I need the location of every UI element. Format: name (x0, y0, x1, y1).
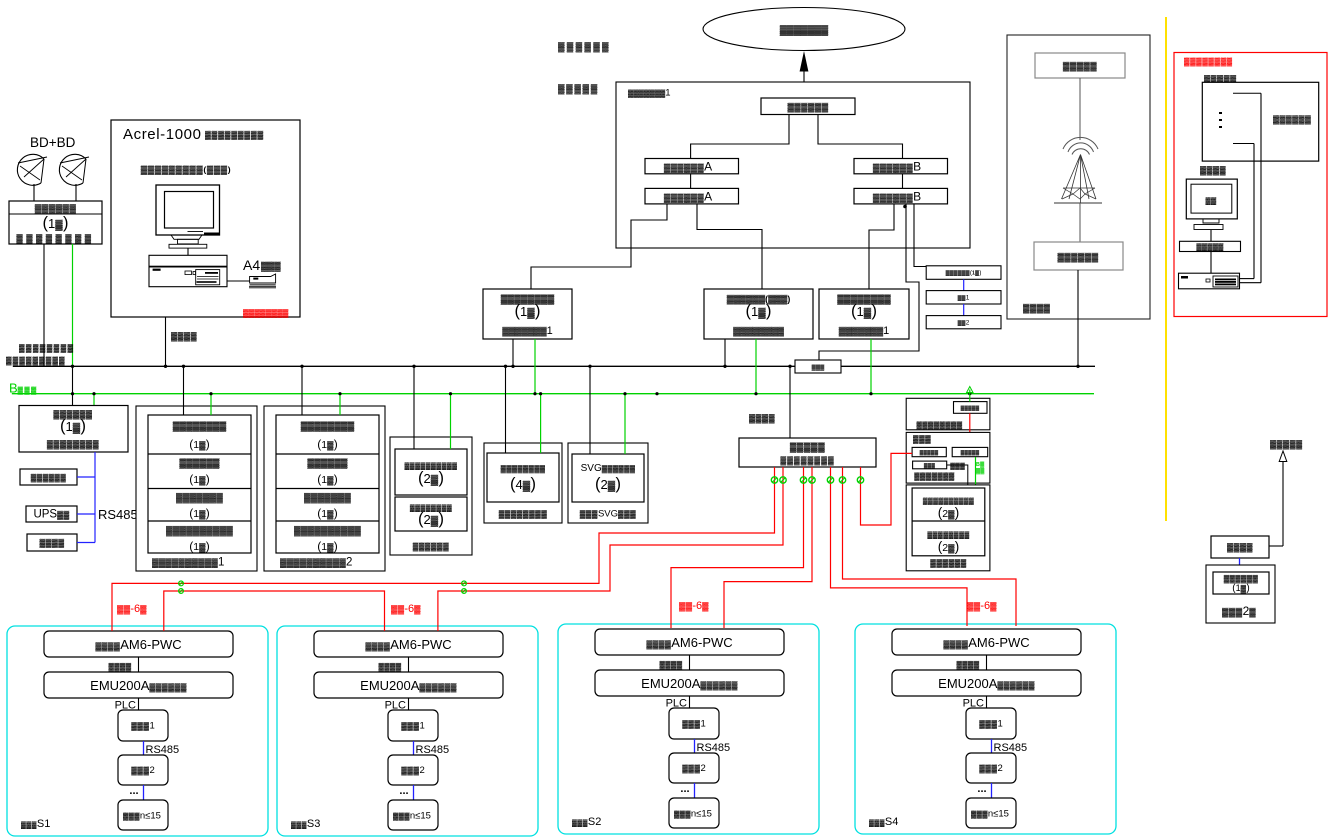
station S3 inverter 2 box (388, 755, 438, 785)
wire keyboard to PC (1210, 252, 1212, 274)
svg-text:(1▓): (1▓) (317, 506, 337, 520)
wire LAN bus to ring switch (789, 366, 791, 438)
booster station S3 cyan box (277, 626, 538, 836)
svg-text:▓▓▓2: ▓▓▓2 (682, 763, 706, 774)
svg-text:▓▓▓▓▓▓A: ▓▓▓▓▓▓A (664, 160, 712, 174)
reserved screen big box (1007, 35, 1150, 319)
svg-text:(1▓): (1▓) (1232, 583, 1249, 594)
clock sync device box (9, 201, 102, 244)
station S3 EMU200A box (314, 672, 503, 698)
wire clock box B-code green (72, 244, 74, 366)
wire monitor to keyboard (1210, 230, 1212, 241)
safety automation screen 1 stack box (136, 406, 257, 571)
safety automation screen 2 stack box (264, 406, 385, 571)
wire B-code timing green bus (12, 393, 1094, 395)
ellipse Shanghai dispatch platform (703, 8, 905, 51)
svg-text:▓▓▓▓: ▓▓▓▓ (171, 331, 198, 342)
svg-text:▓▓▓▓▓▓▓▓▓: ▓▓▓▓▓▓▓▓▓ (6, 356, 66, 366)
station S4 wire RS485 blue 2 (991, 783, 993, 798)
wire antenna1 to clock box (33, 184, 35, 201)
wire modem1 to modem2 blue (963, 279, 965, 290)
station S4 inverter n box (966, 798, 1016, 828)
svg-text:▓▓▓▓▓▓▓▓: ▓▓▓▓▓▓▓▓ (301, 421, 355, 432)
antenna dish 1 (17, 154, 44, 185)
svg-text:▓▓▓▓▓▓▓▓▓▓: ▓▓▓▓▓▓▓▓▓▓ (923, 497, 974, 505)
svg-text:▓▓▓▓▓▓▓: ▓▓▓▓▓▓▓ (176, 493, 223, 504)
keyboard and mouse box (1180, 241, 1241, 251)
svg-text:...: ... (680, 783, 689, 795)
station S2 EMU200A box (595, 670, 784, 696)
antenna dish 2 (59, 154, 86, 185)
wire netsec1 to LAN bus (512, 339, 514, 366)
svg-text:▓▓2: ▓▓2 (958, 319, 970, 326)
svg-text:▓▓▓▓: ▓▓▓▓ (108, 662, 131, 672)
wire LAN bus to incoming cabinet (505, 366, 507, 453)
svg-text:▓▓▓▓: ▓▓▓▓ (956, 660, 979, 670)
station S4 wire EMU to inverter1 (986, 696, 988, 708)
wire switch B to net-security device 2 (869, 204, 894, 289)
svg-text:▓▓▓▓▓▓▓: ▓▓▓▓▓▓▓ (914, 472, 955, 482)
svg-text:...: ... (399, 785, 408, 797)
svg-text:A4: A4 (243, 257, 260, 273)
station S4 inverter 1 box (966, 708, 1016, 739)
svg-text:SVG▓▓▓▓▓▓: SVG▓▓▓▓▓▓ (581, 463, 636, 474)
svg-text:▓▓▓: ▓▓▓ (913, 435, 931, 445)
svg-text:▓▓▓1: ▓▓▓1 (401, 721, 425, 732)
svg-text:▓▓▓▓▓▓: ▓▓▓▓▓▓ (31, 473, 67, 483)
svg-text:▓▓▓▓▓▓▓▓: ▓▓▓▓▓▓▓▓ (501, 464, 546, 473)
LCD monitor icon (1186, 179, 1237, 219)
wire LAN bus to stack2 (301, 366, 303, 415)
junction dots on LAN bus (71, 365, 74, 368)
wire netsec1 to green bus (534, 339, 536, 394)
svg-text:▓▓▓▓▓▓: ▓▓▓▓▓▓ (787, 102, 828, 113)
station S3 wire RS485 blue 2 (413, 785, 415, 800)
svg-text:▓▓▓▓▓▓▓▓: ▓▓▓▓▓▓▓▓ (173, 421, 227, 432)
network security monitor device box 1 (483, 289, 572, 339)
wire encryptor B to switch B (902, 174, 904, 189)
wire fiber port4 to S2 right (724, 467, 812, 628)
wire fiber port3 to S2 left (671, 467, 804, 628)
wire station-LAN ethernet bus (13, 365, 1095, 367)
Acrel-1000 monitoring backstage box (111, 120, 300, 317)
SVG cabinet box (568, 443, 648, 523)
wire fiber S3 to port2 (438, 467, 783, 631)
svg-text:▓▓▓2: ▓▓▓2 (979, 763, 1003, 774)
svg-text:▓▓▓▓▓: ▓▓▓▓▓ (1196, 243, 1224, 251)
wire collection box green timing to access cabinet (975, 457, 977, 488)
station S4 EMU200A box (892, 670, 1081, 696)
svg-text:▓▓▓▓▓▓: ▓▓▓▓▓▓ (179, 458, 219, 469)
wire fiber port5 to S4 left (831, 467, 968, 626)
multifunction meter box (1213, 572, 1269, 594)
dispatch network switch A box (645, 188, 739, 204)
wire telecontrol to LAN bus (724, 339, 726, 366)
svg-text:▓▓▓▓▓▓▓▓: ▓▓▓▓▓▓▓▓ (917, 421, 963, 431)
svg-text:▓▓▓▓▓▓▓▓: ▓▓▓▓▓▓▓▓ (243, 309, 289, 319)
svg-text:▓▓▓▓: ▓▓▓▓ (1200, 165, 1227, 176)
station S2 wire RS485 blue 2 (694, 783, 696, 798)
svg-text:...: ... (977, 783, 986, 795)
radio tower icon (1063, 137, 1098, 149)
svg-text:▓▓▓▓▓▓B: ▓▓▓▓▓▓B (873, 189, 921, 203)
svg-text:▓▓▓▓: ▓▓▓▓ (659, 660, 682, 670)
wire LAN bus to stack1 (183, 366, 185, 415)
svg-text:▓▓▓▓▓▓: ▓▓▓▓▓▓ (558, 42, 611, 53)
svg-text:▓▓▓▓▓▓▓1: ▓▓▓▓▓▓▓1 (628, 88, 671, 99)
svg-text:B▓: B▓ (976, 461, 984, 468)
svg-text:▓▓-6▓: ▓▓-6▓ (391, 603, 421, 615)
separator yellow line (1165, 17, 1167, 521)
station S3 inverter n box (388, 800, 438, 830)
svg-text:▓▓: ▓▓ (1206, 197, 1217, 205)
wire modem2 to modem3 blue (963, 304, 965, 316)
DC power box (27, 534, 77, 551)
svg-text:▓▓▓▓▓▓▓: ▓▓▓▓▓▓▓ (304, 493, 351, 504)
svg-text:▓▓▓▓▓: ▓▓▓▓▓ (961, 405, 980, 412)
svg-text:▓▓▓▓▓▓▓▓: ▓▓▓▓▓▓▓▓ (927, 531, 969, 539)
wire fiber port7 to collection box (861, 453, 913, 525)
network security monitor device box 2 (819, 289, 909, 339)
svg-text:▓▓▓▓▓▓▓▓▓▓: ▓▓▓▓▓▓▓▓▓▓ (166, 526, 233, 537)
wire monitor to case (187, 248, 189, 255)
station S1 inverter 1 box (118, 710, 168, 741)
svg-text:▓▓▓: ▓▓▓ (261, 261, 281, 272)
wire LAN bus to SVG cabinet (589, 366, 591, 454)
svg-text:(1▓): (1▓) (189, 539, 209, 553)
video monitoring screen red box (1174, 53, 1327, 317)
svg-text:▓▓▓▓▓: ▓▓▓▓▓ (1270, 439, 1303, 450)
svg-text:▓▓▓▓▓: ▓▓▓▓▓ (961, 449, 980, 456)
svg-text:RS485: RS485 (994, 742, 1028, 754)
wire antenna2 to clock box (75, 184, 77, 201)
station S2 inverter 2 box (669, 753, 719, 783)
dispatch network router box (761, 98, 855, 115)
booster station S4 cyan box (855, 624, 1116, 834)
svg-text:(1▓): (1▓) (189, 437, 209, 451)
fiber port circles on ring switch (771, 477, 777, 483)
svg-text:(1▓): (1▓) (189, 472, 209, 486)
svg-text:▓▓▓n≤15: ▓▓▓n≤15 (674, 809, 712, 820)
svg-text:▓▓▓▓▓▓▓▓: ▓▓▓▓▓▓▓▓ (499, 510, 548, 520)
svg-text:▓▓▓1: ▓▓▓1 (979, 719, 1003, 730)
station S2 inverter 1 box (669, 708, 719, 739)
svg-text:▓▓▓▓▓▓▓▓▓▓: ▓▓▓▓▓▓▓▓▓▓ (405, 462, 458, 470)
incoming switch cabinet box (484, 443, 562, 523)
wire Acrel box to LAN bus (165, 317, 167, 366)
outgoing-line cabinet box (390, 437, 472, 555)
wire green bus to SVG cabinet (624, 394, 626, 454)
station S3 AM6-PWC box (314, 631, 503, 657)
dispatch network switch B box (854, 188, 948, 204)
wire encryptor A to switch A (690, 174, 692, 189)
svg-text:▓▓▓2: ▓▓▓2 (401, 765, 425, 776)
svg-text:▓▓-6▓: ▓▓-6▓ (967, 600, 997, 612)
svg-text:▓▓▓▓▓▓▓1: ▓▓▓▓▓▓▓1 (502, 325, 552, 337)
printer icon (250, 274, 276, 283)
wire fiber S1 to S3 (164, 591, 385, 631)
svg-text:▓▓▓▓▓▓▓▓▓: ▓▓▓▓▓▓▓▓▓ (205, 131, 264, 141)
modem device box 1 (926, 266, 1001, 280)
wire switch B to modem box (914, 204, 926, 267)
svg-text:▓▓▓▓: ▓▓▓▓ (1227, 542, 1254, 553)
station S4 wire RS485 blue 1 (991, 739, 993, 753)
svg-text:▓▓▓▓▓▓▓▓▓(▓▓▓): ▓▓▓▓▓▓▓▓▓(▓▓▓) (141, 165, 232, 176)
wire clock box to LAN bus black (43, 244, 45, 366)
firewall box on bus (795, 360, 841, 373)
svg-text:RS485: RS485 (416, 744, 450, 756)
wire case to printer (227, 280, 250, 282)
station S1 inverter 2 box (118, 755, 168, 785)
camera dots (1219, 112, 1222, 114)
station S2 wire EMU to inverter1 (689, 696, 691, 708)
svg-text:▓▓▓▓▓▓A: ▓▓▓▓▓▓A (664, 189, 712, 203)
svg-text:RS485: RS485 (146, 744, 180, 756)
svg-text:▓▓▓▓▓▓▓▓: ▓▓▓▓▓▓▓▓ (501, 294, 555, 305)
svg-text:▓▓▓SVG▓▓▓: ▓▓▓SVG▓▓▓ (580, 509, 637, 520)
wire switch A to telecontrol device (697, 204, 762, 289)
wire green bus to outgoing cabinet (450, 394, 452, 449)
svg-text:▓▓▓▓▓▓▓▓▓▓: ▓▓▓▓▓▓▓▓▓▓ (294, 526, 361, 537)
monitor icon (156, 185, 220, 235)
svg-text:▓▓▓▓▓▓: ▓▓▓▓▓▓ (35, 204, 77, 215)
junction dots on green bus (71, 392, 74, 395)
svg-text:▓▓-6▓: ▓▓-6▓ (679, 600, 709, 612)
svg-text:▓▓▓2: ▓▓▓2 (131, 765, 155, 776)
svg-text:...: ... (129, 785, 138, 797)
fiber patch panel screen box (906, 398, 990, 430)
wire green bus to stack2 (339, 394, 341, 415)
svg-text:▓▓▓▓▓▓▓▓: ▓▓▓▓▓▓▓▓ (733, 326, 784, 337)
booster station S2 cyan box (558, 624, 819, 834)
wire fiber port6 to S4 right (843, 467, 1017, 626)
svg-text:▓▓▓▓▓▓▓▓: ▓▓▓▓▓▓▓▓ (16, 233, 94, 244)
svg-text:▓▓▓▓▓: ▓▓▓▓▓ (920, 449, 939, 456)
svg-text:▓▓▓▓▓▓▓▓▓▓1: ▓▓▓▓▓▓▓▓▓▓1 (152, 557, 224, 569)
computer case icon (149, 255, 227, 286)
wire RS485 blue trunk (94, 452, 96, 543)
svg-text:(1▓): (1▓) (189, 506, 209, 520)
wire fiber port1 to station S1 (112, 467, 775, 631)
svg-text:▓▓▓▓▓▓▓▓: ▓▓▓▓▓▓▓▓ (1184, 57, 1233, 67)
svg-text:▓▓▓▓: ▓▓▓▓ (1023, 303, 1051, 314)
station S1 AM6-PWC box (44, 631, 233, 657)
svg-text:BD+BD: BD+BD (30, 135, 76, 150)
wire patch panel to collection box red (969, 413, 971, 447)
svg-text:RS485: RS485 (697, 742, 731, 754)
svg-text:▓▓▓1: ▓▓▓1 (131, 721, 155, 732)
svg-text:▓▓▓▓▓▓▓▓: ▓▓▓▓▓▓▓▓ (837, 294, 891, 305)
svg-text:▓▓-6▓: ▓▓-6▓ (117, 603, 147, 615)
dispatch vertical encryptor B box (854, 159, 948, 174)
station S1 wire EMU to inverter1 (138, 698, 140, 710)
wire isolation to LAN bus (1077, 270, 1079, 366)
network forward isolation box (1034, 242, 1123, 270)
svg-text:(1▓): (1▓) (317, 437, 337, 451)
station S3 wire EMU to inverter1 (408, 698, 410, 710)
station S1 EMU200A box (44, 672, 233, 698)
station S4 AM6-PWC box (892, 629, 1081, 655)
svg-text:▓▓▓▓▓▓: ▓▓▓▓▓▓ (1057, 252, 1098, 263)
svg-text:▓▓▓▓▓▓: ▓▓▓▓▓▓ (1224, 574, 1259, 584)
station S1 wire RS485 blue 2 (143, 785, 145, 800)
wire LAN bus to outgoing cabinet (413, 366, 415, 449)
svg-text:▓▓▓▓▓▓(▓▓▓): ▓▓▓▓▓▓(▓▓▓) (727, 294, 791, 305)
ring network switch box (739, 438, 876, 467)
svg-text:▓▓▓▓▓▓▓: ▓▓▓▓▓▓▓ (780, 25, 829, 36)
metering cabinet box (1206, 565, 1275, 623)
svg-text:▓▓▓▓▓: ▓▓▓▓▓ (1063, 61, 1097, 72)
wire switch B to firewall (819, 204, 919, 360)
svg-text:UPS▓▓: UPS▓▓ (33, 509, 69, 521)
dispatch vertical encryptor A box (645, 159, 739, 174)
svg-text:▓▓▓▓▓: ▓▓▓▓▓ (558, 84, 599, 95)
wire netsec2 to green bus (870, 339, 872, 394)
svg-text:▓▓▓▓▓▓: ▓▓▓▓▓▓ (930, 559, 966, 569)
svg-text:▓▓▓▓▓▓: ▓▓▓▓▓▓ (1273, 115, 1311, 125)
svg-text:▓▓▓n≤15: ▓▓▓n≤15 (971, 809, 1009, 820)
video PC case icon (1179, 273, 1240, 289)
station S3 wire AM6 to EMU (408, 657, 410, 672)
svg-text:(1▓): (1▓) (317, 539, 337, 553)
svg-text:▓▓: ▓▓ (976, 468, 984, 475)
svg-text:▓▓▓▓▓▓▓▓▓▓2: ▓▓▓▓▓▓▓▓▓▓2 (280, 557, 352, 569)
station S2 wire RS485 blue 1 (694, 739, 696, 753)
svg-text:▓▓▓▓▓▓: ▓▓▓▓▓▓ (413, 542, 449, 552)
fiber splice connectors (179, 581, 184, 586)
access cabinet box (906, 485, 990, 571)
wire camera to PC (1260, 93, 1262, 283)
station S1 wire AM6 to EMU (138, 657, 140, 672)
svg-text:▓▓▓▓▓▓▓▓: ▓▓▓▓▓▓▓▓ (47, 439, 100, 450)
svg-text:▓▓▓: ▓▓▓ (924, 462, 935, 469)
svg-text:▓▓▓▓▓▓▓1: ▓▓▓▓▓▓▓1 (839, 325, 889, 337)
svg-text:▓▓▓▓▓: ▓▓▓▓▓ (790, 442, 825, 453)
modem device box 2 (926, 291, 1001, 304)
booster station S1 cyan box (7, 626, 268, 836)
svg-text:RS485: RS485 (98, 507, 138, 522)
svg-text:▓▓▓▓▓▓: ▓▓▓▓▓▓ (307, 458, 347, 469)
station S1 inverter n box (118, 800, 168, 830)
svg-text:▓▓▓1: ▓▓▓1 (682, 719, 706, 730)
svg-text:▓▓▓: ▓▓▓ (950, 462, 965, 470)
UPS power box (26, 506, 77, 522)
station S2 AM6-PWC box (595, 629, 784, 655)
wire switch A to net-security device 1 (531, 204, 667, 289)
station S4 inverter 2 box (966, 753, 1016, 783)
third-party backstage box (1035, 53, 1125, 78)
other intelligent devices box (20, 469, 77, 485)
protocol converter device box (19, 406, 128, 453)
station S2 wire AM6 to EMU (689, 655, 691, 670)
svg-text:▓▓▓: ▓▓▓ (812, 364, 826, 371)
modem device box 3 (926, 316, 1001, 329)
telecontrol communication device box (704, 289, 813, 339)
svg-text:▓▓▓2▓: ▓▓▓2▓ (1222, 604, 1256, 618)
wire telecontrol to green bus (755, 339, 757, 394)
wire collection box ethernet to access cabinet (947, 465, 968, 488)
svg-text:▓▓▓▓▓▓(1▓): ▓▓▓▓▓▓(1▓) (946, 270, 982, 277)
svg-text:▓▓▓▓▓▓▓▓: ▓▓▓▓▓▓▓▓ (780, 456, 834, 466)
HD camera box (1202, 82, 1318, 161)
wire router to encryptor A (691, 115, 789, 159)
station S3 wire RS485 blue 1 (413, 741, 415, 755)
station S2 inverter n box (669, 798, 719, 828)
svg-text:▓▓▓n≤15: ▓▓▓n≤15 (393, 811, 431, 822)
wire router to encryptor B (818, 115, 903, 159)
svg-text:▓▓▓▓▓▓▓▓: ▓▓▓▓▓▓▓▓ (410, 504, 452, 512)
arrow to dispatch platform (803, 71, 805, 98)
station S1 wire RS485 blue 1 (143, 741, 145, 755)
svg-text:▓▓▓▓: ▓▓▓▓ (378, 662, 401, 672)
data network screen big box (616, 82, 970, 248)
wire green bus to protocol box (93, 394, 95, 406)
arrow to metering master station (1279, 451, 1287, 462)
load control terminal box (1211, 536, 1269, 558)
svg-text:▓▓▓▓: ▓▓▓▓ (40, 539, 65, 549)
station S4 wire AM6 to EMU (986, 655, 988, 670)
svg-text:Acrel-1000: Acrel-1000 (123, 126, 202, 143)
station S3 inverter 1 box (388, 710, 438, 741)
wire green bus up-arrow to patch panel (969, 390, 971, 402)
svg-text:▓▓▓▓▓▓B: ▓▓▓▓▓▓B (873, 160, 921, 174)
wire green bus to stack1 (210, 394, 212, 415)
svg-text:▓▓▓n≤15: ▓▓▓n≤15 (123, 811, 161, 822)
wire tower to isolation device (1079, 203, 1081, 242)
svg-text:▓▓1: ▓▓1 (958, 294, 970, 301)
svg-text:▓▓▓▓▓▓▓▓: ▓▓▓▓▓▓▓▓ (19, 344, 74, 354)
svg-text:(1▓): (1▓) (317, 472, 337, 486)
wire backstage to tower (1079, 78, 1081, 140)
wire load control to meter blue (1239, 558, 1241, 572)
svg-text:▓▓▓▓: ▓▓▓▓ (749, 413, 776, 424)
collection box (906, 432, 990, 483)
wire green bus to incoming cabinet (540, 394, 542, 453)
